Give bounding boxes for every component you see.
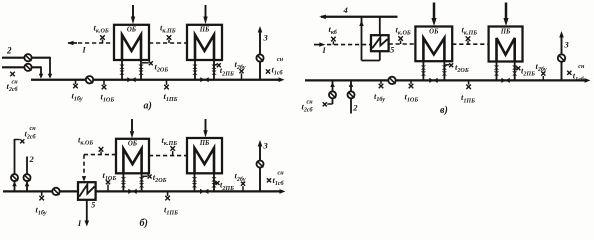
pipe ОБ left outlet (а) [121, 60, 123, 80]
pump on t2sb riser (б) [11, 174, 18, 181]
svg-text:сн: сн [30, 126, 37, 132]
pipe ПБ left outlet (б) [194, 173, 196, 191]
wire: riser 2 (б) [26, 157, 28, 192]
arrow condensate I (в) [314, 44, 320, 46]
valve ПБ right (в) [512, 65, 517, 69]
boiler ОБ (в) [415, 27, 452, 62]
pipe ПБ left outlet (а) [194, 60, 196, 80]
probe t1pb (б) [167, 191, 169, 196]
svg-text:ПБ: ПБ [199, 27, 210, 34]
wire: main network line (в) [305, 79, 587, 81]
probe t2bu (б) [242, 186, 244, 191]
wire: city water inlet upper line (а) [2, 57, 50, 59]
pump on upper inlet line (а) [24, 54, 31, 61]
probe t1bu (в) [380, 80, 382, 83]
arrow up into line 4 (в) [359, 20, 363, 26]
svg-text:2: 2 [352, 103, 358, 113]
svg-text:ОБ: ОБ [127, 27, 137, 34]
svg-text:б): б) [140, 218, 148, 229]
steam arrow into ПБ (б) [205, 119, 207, 131]
pump on riser 3 (в) [558, 54, 565, 61]
valve ОБ right (б) [139, 177, 144, 181]
probe tk.pb (в) [467, 41, 469, 44]
pump on riser 3 (а) [256, 54, 263, 61]
valve ОБ left (а) [119, 65, 124, 69]
valve ПБ left (б) [192, 177, 197, 181]
heat exchanger 5 (б) [78, 182, 96, 200]
valve on main line under ПБ (в) [501, 78, 509, 83]
probe t1pb (а) [166, 80, 168, 85]
boiler ПБ (а) [187, 25, 222, 60]
boiler ПБ (б) [187, 138, 222, 173]
pump on main line (в) [388, 77, 395, 84]
probe t2ob tick (б) [143, 175, 148, 177]
arrow dash into exchanger 5 (б) [82, 176, 86, 182]
boiler ОБ (б) [116, 139, 149, 174]
pipe ОБ left outlet (б) [122, 173, 124, 191]
steam arrow into ОБ (а) [132, 5, 134, 18]
svg-text:сн: сн [578, 64, 585, 70]
probe tk.pb (б) [172, 151, 174, 156]
probe t1ob (в) [410, 80, 412, 83]
steam arrow into ОБ (в) [433, 3, 435, 19]
probe t2pb tick (в) [516, 67, 517, 69]
node t2sb probe (б) [20, 139, 24, 143]
pump on main line (а) [86, 76, 93, 83]
svg-text:3: 3 [564, 40, 570, 50]
probe t1sb (в) [567, 71, 571, 75]
valve ОБ left (б) [121, 177, 126, 181]
probe t2ob tick (в) [445, 64, 449, 66]
svg-text:3: 3 [263, 141, 269, 151]
svg-text:ОБ: ОБ [429, 28, 439, 35]
arrow steam line 4 left (в) [319, 15, 326, 20]
valve ОБ left (в) [421, 65, 426, 69]
arrow main line end (в) [585, 78, 591, 83]
wire: hot water riser 3 (в) [561, 38, 563, 81]
steam arrow into ОБ (б) [131, 119, 133, 131]
arrow riser 3 (б) [258, 140, 263, 147]
svg-text:2: 2 [6, 46, 12, 56]
svg-text:а): а) [144, 100, 152, 111]
probe t1ob (б) [107, 185, 109, 192]
pipe ОБ right outlet (в) [443, 61, 445, 80]
probe tk.ob (б) [100, 151, 102, 154]
pipe ОБ right outlet (б) [141, 173, 143, 191]
boiler ПБ (в) [489, 27, 523, 62]
wire: city water stub t2sb (в) [332, 80, 334, 104]
probe t1sb (б) [267, 178, 271, 182]
boiler ОБ (а) [114, 25, 149, 60]
valve on main line under ОБ (в) [429, 78, 437, 83]
probe t2pb tick (а) [215, 64, 217, 66]
wire: dash line ОБ-ПБ (а) [149, 42, 187, 44]
wire: loop bottom (в) [362, 60, 380, 62]
wire: city water inlet lower line (а) [2, 66, 41, 68]
wire: dash line ОБ-ПБ (в) [452, 43, 488, 45]
svg-text:3: 3 [263, 33, 269, 43]
wire: drop from line 4 to exchanger 5 (в) [379, 17, 381, 35]
valve ПБ left (а) [192, 65, 197, 69]
probe t1sb (а) [266, 69, 270, 73]
probe t1bu (б) [41, 191, 43, 196]
arrow main line end (а) [279, 77, 285, 82]
heat exchanger 5 (в) [371, 35, 389, 51]
arrow riser 3 (в) [559, 31, 564, 38]
wire: dash line 5 to ОБ (в) [389, 43, 416, 45]
wire: dash line from ОБ to exchanger 5 (б) [84, 154, 116, 156]
pipe ОБ left outlet (в) [422, 61, 424, 80]
probe t1ob (а) [103, 80, 105, 85]
arrow into main line from upper inlet (а) [48, 74, 52, 79]
valve ПБ right (а) [211, 65, 216, 69]
pump on stub 2 (в) [348, 91, 355, 98]
valve on main line under ПБ (б) [200, 189, 208, 194]
pump on main line (б) [52, 188, 59, 195]
svg-text:сн: сн [12, 80, 19, 86]
svg-text:5: 5 [390, 45, 394, 54]
pipe ПБ left outlet (в) [496, 62, 498, 81]
arrow riser 3 (а) [258, 26, 263, 33]
arrow up stub t2sb (в) [330, 82, 335, 87]
steam arrow into ПБ (а) [205, 5, 207, 18]
pump on lower inlet line (а) [24, 64, 31, 71]
probe t2ob tick (а) [142, 62, 149, 64]
arrow into main line from lower inlet (а) [39, 74, 43, 79]
svg-text:сн: сн [278, 171, 285, 177]
valve ПБ left (в) [494, 65, 499, 69]
valve ПБ right (б) [211, 177, 216, 181]
wire: riser to t2sb (б) [14, 139, 16, 191]
svg-text:ПБ: ПБ [199, 140, 210, 147]
svg-text:2: 2 [29, 154, 35, 164]
wire: steam line 4 (в) [321, 16, 398, 18]
wire: city water stub 2 (в) [350, 80, 352, 113]
wire: hot water riser 3 (а) [259, 32, 261, 80]
probe t2bu (в) [542, 76, 544, 80]
pipe ПБ right outlet (в) [514, 62, 516, 81]
arrow drain I (б) [85, 221, 90, 227]
pipe ПБ right outlet (б) [213, 173, 215, 191]
wire: dash line to exchanger 5 (в) [327, 44, 371, 46]
probe tk.pb (а) [168, 40, 170, 43]
svg-text:ОБ: ОБ [128, 141, 138, 148]
svg-text:ПБ: ПБ [500, 28, 511, 35]
node t2sb probe (а) [10, 72, 15, 77]
arrow main line end (б) [280, 189, 286, 194]
valve ОБ right (в) [442, 65, 447, 69]
valve ОБ right (а) [138, 65, 143, 69]
wire: main network line (а) [31, 79, 281, 81]
steam arrow into ПБ (в) [505, 3, 507, 19]
wire: condensate dash line to ОБ (а) [78, 42, 114, 44]
svg-text:сн: сн [277, 57, 284, 63]
pipe ОБ right outlet (а) [140, 60, 142, 80]
pipe ПБ right outlet (а) [213, 60, 215, 80]
arrow up stub 2 (в) [349, 82, 354, 87]
probe tkb (в) [332, 41, 334, 44]
probe t1bu (а) [75, 80, 77, 84]
valve on main line under ОБ (б) [128, 189, 136, 194]
wire: hot water riser 3 (б) [259, 146, 261, 191]
arrow condensate out I (а) [68, 42, 77, 44]
wire: return riser to line 4 (в) [361, 17, 363, 61]
wire: drain below exchanger 5 (б) [86, 200, 88, 221]
probe tk.ob (в) [400, 41, 402, 44]
wire: dash line ОБ-ПБ (б) [149, 155, 187, 157]
svg-text:в): в) [440, 105, 448, 116]
valve on main line under ПБ (а) [200, 77, 208, 82]
node t2sb probe (в) [323, 102, 327, 106]
probe t1pb (в) [468, 80, 470, 84]
probe t2pb tick (б) [215, 182, 216, 184]
valve on main line under ОБ (а) [127, 77, 135, 82]
wire: exchanger 5 to loop (в) [379, 51, 381, 60]
svg-text:сн: сн [307, 100, 314, 106]
svg-text:4: 4 [343, 5, 348, 15]
probe tk.ob (а) [102, 40, 104, 43]
pump on riser 2 (б) [24, 174, 31, 181]
pump on t2sb stub (в) [329, 91, 336, 98]
probe t2bu (а) [241, 73, 243, 79]
pump on riser 3 (б) [257, 161, 264, 168]
svg-text:5: 5 [91, 200, 95, 209]
wire: main network line (б) [3, 190, 282, 192]
